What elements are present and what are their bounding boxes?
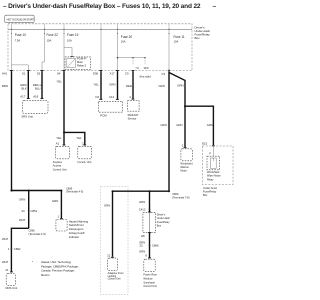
pin X17 (110, 70, 119, 76)
svg-text:(Hot side): (Hot side) (140, 75, 151, 79)
svg-text:Window: Window (143, 277, 152, 281)
wire: right horizontal (C869 terminals 7-8 net) (113, 190, 170, 192)
svg-text:(Terminals 7-8): (Terminals 7-8) (172, 195, 189, 199)
svg-text:YEL: YEL (76, 136, 82, 140)
svg-text:C9: C9 (125, 72, 129, 76)
svg-text:GRN: GRN (109, 83, 115, 87)
pin 4 (MAF) (129, 95, 134, 100)
svg-text:– Driver's Under-dash Fuse/Rel: – Driver's Under-dash Fuse/Relay Box – F… (3, 3, 201, 10)
svg-text:Power Rear: Power Rear (143, 273, 157, 277)
svg-text:*: * (32, 260, 33, 264)
pass-through box (under-dash) (143, 212, 171, 232)
svg-text:7.5A: 7.5A (15, 38, 21, 42)
svg-text:C412: C412 (139, 208, 146, 212)
wire: E38 YEL to PCM D4 (94, 71, 102, 99)
svg-text:C12: C12 (109, 95, 115, 99)
wire: fuse10 to H41 and S1 (12, 34, 29, 71)
svg-text:Fuse 20: Fuse 20 (121, 35, 133, 39)
label C869 (Terminals 4-5) (66, 186, 83, 193)
pin 1 (hazard) (58, 214, 63, 219)
immobilizer unit box (77, 146, 91, 164)
svg-text:WHT: WHT (2, 260, 9, 264)
pin E15 (202, 142, 215, 147)
svg-text:Motor: Motor (180, 169, 187, 172)
svg-text:Relay: Relay (207, 178, 214, 181)
svg-text:(Terminals 4-5): (Terminals 4-5) (66, 190, 83, 194)
svg-text:A18: A18 (33, 95, 38, 99)
relay PGM-FI Main Relay 2 (65, 56, 91, 71)
svg-text:Fuse 10: Fuse 10 (15, 33, 27, 37)
svg-text:Box: Box (195, 36, 201, 40)
hazard warning switch box (56, 219, 89, 238)
keyless access control unit box (53, 146, 70, 171)
node: bus taps (11, 29, 170, 30)
svg-text:Mexico: Mexico (41, 273, 50, 277)
wire: C3 diagonal branch to washer/wiper (169, 73, 185, 107)
svg-text:21: 21 (5, 268, 9, 272)
svg-text:GRN: GRN (52, 199, 58, 203)
wire: S2 RED to SRS A18 (33, 71, 42, 98)
svg-text:A1: A1 (56, 141, 60, 145)
svg-text:S1: S1 (22, 72, 26, 76)
svg-text:10A: 10A (47, 38, 52, 42)
fuse F20 (117, 29, 132, 43)
under-hood fuse/relay box (203, 146, 234, 185)
svg-text:GRN: GRN (161, 123, 167, 127)
wire: X17 GRN to PCM C12 (109, 71, 117, 99)
fuse F11 (168, 29, 184, 43)
wire: fuse11 to C3 (168, 34, 170, 71)
wire: S1 GRN/BLK to SRS A17 (20, 71, 28, 98)
svg-text:Fuse 19: Fuse 19 (67, 33, 79, 37)
wire: C9 RED to MAF 4 (126, 71, 133, 99)
svg-text:GRN: GRN (139, 200, 145, 204)
svg-text:Box: Box (203, 193, 208, 197)
svg-text:–: – (213, 3, 217, 10)
svg-text:W/D: W/D (144, 67, 149, 70)
svg-text:21: 21 (107, 253, 111, 257)
svg-text:BLU: BLU (35, 86, 40, 90)
svg-text:Fuse 11: Fuse 11 (174, 35, 185, 39)
svg-text:Switch/Front: Switch/Front (69, 223, 84, 227)
node: C851 branch (28, 190, 30, 192)
wire: to wiper motor relay (185, 106, 213, 145)
pin H8 (141, 232, 151, 238)
svg-text:Under-hood: Under-hood (203, 186, 217, 190)
pin 2 (immob) (82, 141, 86, 145)
svg-text:SRS Unit: SRS Unit (21, 115, 33, 119)
svg-text:Control Unit: Control Unit (143, 284, 157, 288)
fuse F10 (11, 29, 26, 42)
wire: left horizontal (C869 terminals 4-5 net) (12, 190, 62, 192)
windshield wiper motor relay (207, 156, 221, 181)
pin H41 (2, 70, 13, 76)
svg-text:H8: H8 (141, 234, 145, 238)
svg-text:GRN: GRN (207, 123, 213, 127)
pin E38 (93, 70, 102, 76)
svg-text:Control Unit: Control Unit (53, 167, 67, 171)
svg-text:S2: S2 (37, 72, 41, 76)
svg-text:WHT: WHT (2, 237, 9, 241)
svg-text:C851: C851 (31, 209, 38, 213)
wire W1: H41 BRN down (2, 71, 12, 190)
pin C3 (162, 70, 170, 76)
pin 21 (adaptive) (107, 253, 114, 257)
svg-text:Box: Box (157, 224, 162, 227)
svg-text:Windshield: Windshield (207, 171, 220, 174)
pin 8 (sunshade) (145, 253, 151, 258)
svg-text:C862: C862 (14, 247, 21, 251)
svg-text:GRN: GRN (104, 203, 110, 207)
svg-text:C866: C866 (152, 244, 159, 248)
svg-text:Airbag Cutoff: Airbag Cutoff (69, 231, 85, 235)
svg-text:(Terminals 1-5): (Terminals 1-5) (29, 232, 46, 236)
svg-text:RED: RED (126, 84, 132, 88)
pin C9 (125, 70, 134, 76)
svg-text:Wiper Motor: Wiper Motor (207, 175, 221, 178)
pin C12 (109, 95, 119, 100)
wire: bus to E38 (100, 29, 102, 70)
svg-text:Driver's: Driver's (157, 214, 166, 217)
svg-text:GRN: GRN (139, 250, 145, 254)
svg-text:Indicator: Indicator (69, 235, 79, 239)
fuse F22 (44, 29, 58, 42)
svg-text:Sensor: Sensor (128, 117, 137, 121)
wire: fuse19 to S4 and relay coil (64, 34, 72, 71)
PCM box (99, 101, 123, 117)
node: W1 bottom corner (10, 189, 12, 191)
pin 21 (ODS) (5, 268, 12, 272)
svg-text:Fuse/Relay: Fuse/Relay (157, 221, 170, 224)
wire: C860 jog left, down to ODS (2, 228, 29, 271)
optional package dashed box (101, 187, 129, 295)
wire stubs: box top edge to bus (12, 24, 170, 30)
svg-text:Control Unit: Control Unit (108, 278, 121, 281)
pin C412 (148, 212, 151, 213)
svg-text:X17: X17 (110, 72, 115, 76)
wire: C851 chain down (19, 191, 38, 229)
pin 2 (washer motor) (182, 143, 187, 148)
svg-text:GRN: GRN (159, 84, 165, 88)
wire: center chain GRN to C412 (139, 190, 151, 212)
wire: H8 to C866 to sunshade (139, 233, 159, 258)
svg-text:Sunshade: Sunshade (143, 280, 155, 284)
svg-text:ODS Unit: ODS Unit (5, 286, 17, 290)
MAF/IAT sensor box (128, 101, 140, 121)
wire: hazard branch GRN (52, 190, 62, 219)
svg-text:GRN: GRN (19, 198, 25, 202)
label: Driver's Under-dash Fuse/Relay Box (195, 25, 211, 40)
svg-text:10A: 10A (121, 40, 126, 44)
driver's under-dash fuse/relay box (dashed outline) (8, 24, 192, 71)
label C869 (Terminals 7-8) (172, 192, 189, 199)
svg-text:Fuse/Relay: Fuse/Relay (203, 189, 217, 193)
wire: dashed continuation to C9 (132, 58, 134, 65)
svg-text:WHT: WHT (19, 218, 26, 222)
pin A1 (56, 141, 66, 145)
svg-text:C3: C3 (162, 72, 166, 76)
node: fuse20 branch (117, 57, 119, 59)
svg-text:GRN: GRN (177, 84, 183, 88)
pin S2 (37, 70, 44, 76)
wire: fuse11 C3 GRN down left branch (159, 71, 170, 191)
svg-text:Keyless: Keyless (53, 160, 63, 164)
wire: to windshield washer motor (176, 106, 185, 147)
svg-text:GRN: GRN (176, 123, 182, 127)
ODS unit box (5, 274, 17, 290)
svg-text:Hazard Warning: Hazard Warning (69, 219, 89, 223)
svg-text:Relay 2: Relay 2 (77, 63, 87, 67)
pin D4 (96, 95, 103, 100)
svg-text:H41: H41 (2, 72, 8, 76)
fuse F19 (63, 29, 78, 42)
svg-text:S4: S4 (57, 72, 61, 76)
wire: fuse20 to X17 (118, 34, 146, 71)
SRS unit box (21, 101, 48, 119)
bus wire (hot bus inside box) (8, 28, 192, 30)
svg-text:10A: 10A (174, 40, 179, 44)
label under-hood box (203, 186, 217, 197)
note: asterisk packages (32, 260, 79, 277)
svg-text:PCM: PCM (100, 114, 107, 118)
node: corner C869 right (168, 190, 170, 192)
svg-text:YEL: YEL (94, 83, 100, 87)
wire: adaptive front lighting GRN (104, 190, 114, 257)
label C860 (Terminals 1-5) (29, 229, 46, 236)
svg-text:E38: E38 (93, 72, 98, 76)
svg-text:Canada: Premium Package;: Canada: Premium Package; (41, 269, 75, 273)
svg-text:Passenger's: Passenger's (69, 227, 84, 231)
svg-text:Under-dash: Under-dash (157, 217, 171, 220)
svg-text:24: 24 (22, 209, 26, 213)
power rear window sunshade control unit box (143, 259, 157, 288)
svg-text:22: 22 (140, 244, 144, 248)
svg-text:YEL: YEL (56, 136, 62, 140)
svg-text:HOT IN ON (II) OR START: HOT IN ON (II) OR START (7, 19, 35, 22)
svg-text:D4: D4 (96, 95, 100, 99)
svg-text:Fuse 22: Fuse 22 (47, 33, 59, 37)
svg-text:E15: E15 (202, 142, 207, 146)
svg-text:Package, CMBS/PAX Package;: Package, CMBS/PAX Package; (41, 264, 79, 268)
svg-text:BRN: BRN (2, 84, 8, 88)
node: washer/wiper split (184, 105, 186, 107)
hot label box (5, 15, 35, 23)
svg-text:Immob. Unit: Immob. Unit (77, 160, 91, 164)
pin S4 (57, 70, 65, 76)
pin A18 (33, 95, 43, 99)
svg-text:10A: 10A (67, 38, 72, 42)
svg-text:A17: A17 (20, 95, 25, 99)
pin A17 (20, 95, 29, 99)
wire: fuse22 to S2 (42, 34, 45, 71)
wire: dashed continuation stub (144, 58, 146, 65)
adaptive front lighting control unit box (108, 258, 124, 281)
svg-text:YEL: YEL (57, 79, 63, 83)
wire: S4 YEL down to keyless split (56, 71, 85, 145)
svg-text:Access: Access (53, 164, 62, 168)
pin S1 (22, 70, 30, 76)
windshield washer motor box (180, 149, 193, 173)
svg-text:BLK: BLK (22, 86, 27, 90)
svg-text:Hawaii, USA: Technology: Hawaii, USA: Technology (41, 260, 72, 264)
